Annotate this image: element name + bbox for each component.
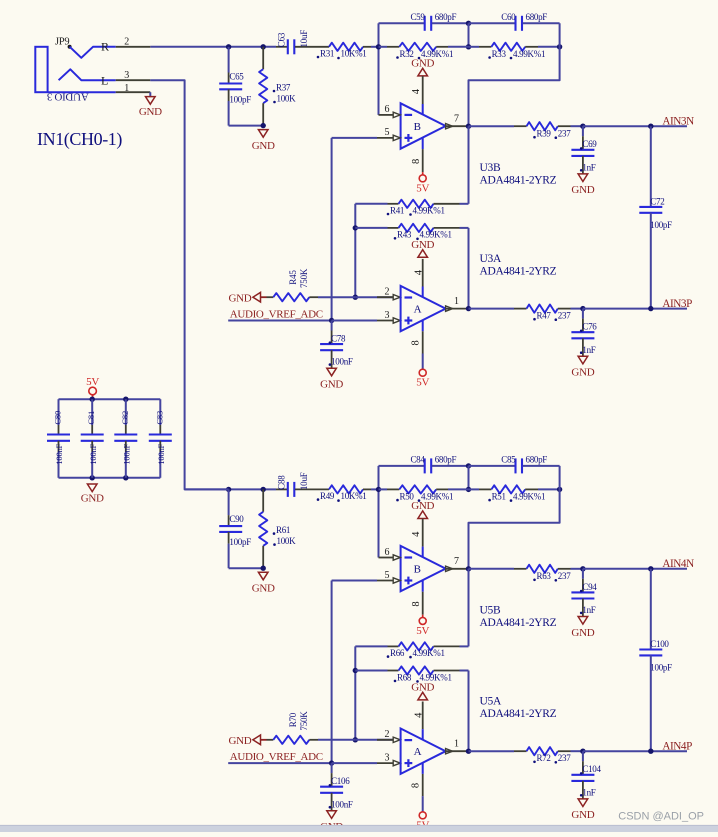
svg-text:ADA4841-2YRZ: ADA4841-2YRZ	[480, 175, 557, 187]
svg-text:R43: R43	[397, 230, 412, 240]
svg-text:5V: 5V	[86, 376, 99, 388]
svg-text:100pF: 100pF	[650, 220, 672, 230]
svg-text:4.99K%1: 4.99K%1	[413, 648, 445, 658]
svg-text:GND: GND	[411, 682, 434, 694]
svg-text:ADA4841-2YRZ: ADA4841-2YRZ	[480, 617, 557, 629]
svg-text:10uF: 10uF	[299, 472, 309, 490]
svg-text:100K: 100K	[277, 94, 297, 104]
svg-text:R61: R61	[276, 525, 290, 535]
svg-text:237: 237	[558, 129, 571, 139]
svg-text:CSDN @ADI_OP: CSDN @ADI_OP	[618, 811, 704, 823]
svg-text:8: 8	[410, 783, 421, 788]
svg-text:C81: C81	[86, 411, 96, 425]
svg-text:GND: GND	[411, 239, 434, 251]
svg-text:GND: GND	[571, 809, 594, 821]
svg-text:1: 1	[454, 296, 459, 307]
svg-text:ADA4841-2YRZ: ADA4841-2YRZ	[480, 708, 557, 720]
svg-text:GND: GND	[139, 106, 162, 118]
svg-text:U5A: U5A	[480, 696, 502, 708]
svg-text:C63: C63	[277, 32, 287, 47]
svg-text:100nF: 100nF	[156, 443, 166, 464]
svg-text:6: 6	[384, 547, 389, 558]
svg-text:L: L	[101, 74, 108, 88]
svg-text:B: B	[414, 121, 421, 133]
svg-text:2: 2	[384, 287, 389, 298]
svg-text:100K: 100K	[277, 536, 297, 546]
svg-text:5V: 5V	[416, 182, 429, 194]
svg-text:U5B: U5B	[480, 605, 501, 617]
svg-text:GND: GND	[228, 292, 251, 304]
svg-text:100nF: 100nF	[331, 357, 353, 367]
svg-text:C78: C78	[331, 334, 346, 344]
svg-text:AIN4P: AIN4P	[662, 741, 692, 753]
svg-text:R49: R49	[320, 491, 335, 501]
svg-text:100pF: 100pF	[229, 537, 251, 547]
svg-text:10K%1: 10K%1	[341, 49, 367, 59]
svg-text:750K: 750K	[299, 268, 309, 288]
svg-text:R51: R51	[492, 492, 506, 502]
svg-text:R41: R41	[390, 205, 404, 215]
svg-text:AUDIO_VREF_ADC: AUDIO_VREF_ADC	[230, 309, 323, 321]
svg-text:R39: R39	[537, 129, 552, 139]
svg-text:C84: C84	[410, 455, 425, 465]
svg-text:5: 5	[384, 127, 389, 138]
svg-text:7: 7	[454, 114, 459, 125]
svg-text:U3A: U3A	[480, 253, 502, 265]
svg-text:GND: GND	[228, 735, 251, 747]
svg-text:C85: C85	[501, 455, 516, 465]
svg-text:R31: R31	[320, 49, 334, 59]
svg-text:750K: 750K	[299, 711, 309, 731]
svg-text:GND: GND	[411, 500, 434, 512]
svg-text:3: 3	[384, 752, 389, 763]
svg-text:5V: 5V	[416, 377, 429, 389]
svg-text:10K%1: 10K%1	[341, 491, 367, 501]
svg-text:R45: R45	[288, 270, 298, 285]
svg-text:8: 8	[411, 159, 422, 164]
svg-text:GND: GND	[252, 582, 275, 594]
svg-text:C94: C94	[582, 582, 597, 592]
svg-text:ADA4841-2YRZ: ADA4841-2YRZ	[480, 266, 557, 278]
svg-text:C90: C90	[229, 514, 244, 524]
svg-text:R63: R63	[537, 571, 552, 581]
svg-text:3: 3	[384, 310, 389, 321]
svg-text:AIN4N: AIN4N	[662, 558, 694, 570]
svg-text:7: 7	[454, 556, 459, 567]
svg-text:1nF: 1nF	[582, 605, 595, 615]
svg-text:100pF: 100pF	[650, 663, 672, 673]
svg-text:C104: C104	[582, 764, 601, 774]
svg-text:680pF: 680pF	[435, 12, 457, 22]
svg-text:GND: GND	[571, 627, 594, 639]
svg-text:8: 8	[410, 340, 421, 345]
svg-text:A: A	[414, 746, 422, 758]
svg-text:237: 237	[558, 311, 571, 321]
svg-text:R47: R47	[537, 311, 552, 321]
svg-text:GND: GND	[252, 140, 275, 152]
svg-text:100pF: 100pF	[229, 95, 251, 105]
svg-text:100nF: 100nF	[54, 443, 64, 464]
svg-text:R66: R66	[390, 648, 405, 658]
svg-text:AIN3P: AIN3P	[662, 298, 692, 310]
svg-text:1: 1	[124, 83, 129, 94]
svg-text:C72: C72	[650, 197, 664, 207]
svg-text:C60: C60	[501, 12, 516, 22]
svg-text:R37: R37	[276, 83, 291, 93]
svg-text:U3B: U3B	[480, 162, 501, 174]
svg-text:680pF: 680pF	[435, 455, 457, 465]
svg-text:680pF: 680pF	[526, 455, 548, 465]
svg-text:237: 237	[558, 753, 571, 763]
svg-text:C100: C100	[650, 639, 669, 649]
svg-text:3: 3	[124, 70, 129, 81]
svg-text:C76: C76	[582, 322, 597, 332]
svg-text:5V: 5V	[416, 625, 429, 637]
svg-text:100nF: 100nF	[122, 443, 132, 464]
svg-text:6: 6	[384, 104, 389, 115]
svg-text:AUDIO_VREF_ADC: AUDIO_VREF_ADC	[230, 751, 323, 763]
svg-text:B: B	[414, 564, 421, 576]
svg-text:GND: GND	[81, 493, 104, 505]
svg-text:5: 5	[384, 570, 389, 581]
svg-text:GND: GND	[571, 184, 594, 196]
svg-text:A: A	[414, 304, 422, 316]
svg-text:AUDIO 3: AUDIO 3	[46, 91, 88, 103]
svg-text:100nF: 100nF	[331, 799, 353, 809]
svg-text:8: 8	[411, 602, 422, 607]
svg-text:680pF: 680pF	[526, 12, 548, 22]
svg-text:C59: C59	[410, 12, 425, 22]
svg-text:1nF: 1nF	[582, 787, 595, 797]
svg-text:R72: R72	[537, 753, 551, 763]
svg-text:GND: GND	[411, 58, 434, 70]
svg-text:R: R	[101, 40, 109, 54]
svg-text:4.99K%1: 4.99K%1	[513, 49, 545, 59]
svg-text:1nF: 1nF	[582, 345, 595, 355]
svg-text:C83: C83	[154, 411, 164, 425]
svg-text:2: 2	[124, 37, 129, 48]
svg-text:AIN3N: AIN3N	[662, 116, 694, 128]
svg-text:237: 237	[558, 571, 571, 581]
svg-text:C80: C80	[53, 411, 63, 425]
svg-text:4.99K%1: 4.99K%1	[513, 492, 545, 502]
svg-text:R70: R70	[288, 712, 298, 727]
svg-text:C69: C69	[582, 139, 597, 149]
svg-text:R68: R68	[397, 672, 412, 682]
svg-text:IN1(CH0-1): IN1(CH0-1)	[37, 129, 122, 150]
svg-text:R33: R33	[492, 49, 507, 59]
svg-text:GND: GND	[320, 379, 343, 391]
svg-text:1nF: 1nF	[582, 162, 595, 172]
svg-text:GND: GND	[571, 367, 594, 379]
svg-text:10uF: 10uF	[299, 30, 309, 48]
svg-text:C82: C82	[120, 411, 130, 425]
svg-text:JP9: JP9	[55, 37, 69, 48]
svg-text:C88: C88	[277, 475, 287, 490]
svg-text:C106: C106	[331, 776, 350, 786]
svg-text:1: 1	[454, 739, 459, 750]
svg-text:4.99K%1: 4.99K%1	[413, 205, 445, 215]
svg-text:100nF: 100nF	[88, 443, 98, 464]
svg-text:2: 2	[384, 729, 389, 740]
svg-text:C65: C65	[229, 72, 244, 82]
